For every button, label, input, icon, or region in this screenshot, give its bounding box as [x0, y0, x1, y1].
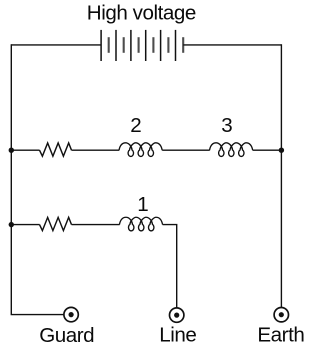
inductor 3: [210, 143, 253, 157]
inductor 1: [119, 217, 162, 231]
svg-text:Guard: Guard: [39, 324, 94, 347]
svg-text:2: 2: [130, 114, 141, 137]
wire: middle row segment 2: [72, 149, 120, 151]
node: junction left rail / lower branch: [9, 222, 14, 227]
node: junction right rail / middle branch: [279, 148, 284, 153]
wire: lower row segment 1: [11, 224, 39, 226]
wire: middle row segment 1: [11, 149, 39, 151]
inductor 2: [119, 143, 162, 157]
svg-text:Earth: Earth: [257, 324, 304, 347]
resistor (middle branch, left): [40, 143, 72, 156]
wire: middle row segment 4: [253, 149, 282, 151]
terminal Guard: [64, 307, 78, 321]
svg-text:Line: Line: [159, 324, 196, 347]
wire: lower row to Line terminal: [163, 225, 177, 309]
battery B1 "High voltage" source: [101, 30, 183, 61]
wire: left vertical rail: [11, 44, 64, 314]
wire: middle row segment 3: [162, 149, 210, 151]
terminal Line: [170, 308, 184, 322]
resistor (lower branch): [40, 217, 72, 230]
wire: top right (battery - to right rail): [183, 44, 281, 46]
svg-text:1: 1: [137, 193, 148, 216]
wire: lower row segment 2: [72, 224, 120, 226]
terminal Earth: [274, 308, 288, 322]
node: junction left rail / middle branch: [9, 148, 14, 153]
svg-text:High voltage: High voltage: [87, 2, 196, 25]
svg-text:3: 3: [221, 114, 232, 137]
wire: right vertical rail: [280, 44, 282, 308]
wire: top left (battery + to left rail): [11, 44, 101, 46]
